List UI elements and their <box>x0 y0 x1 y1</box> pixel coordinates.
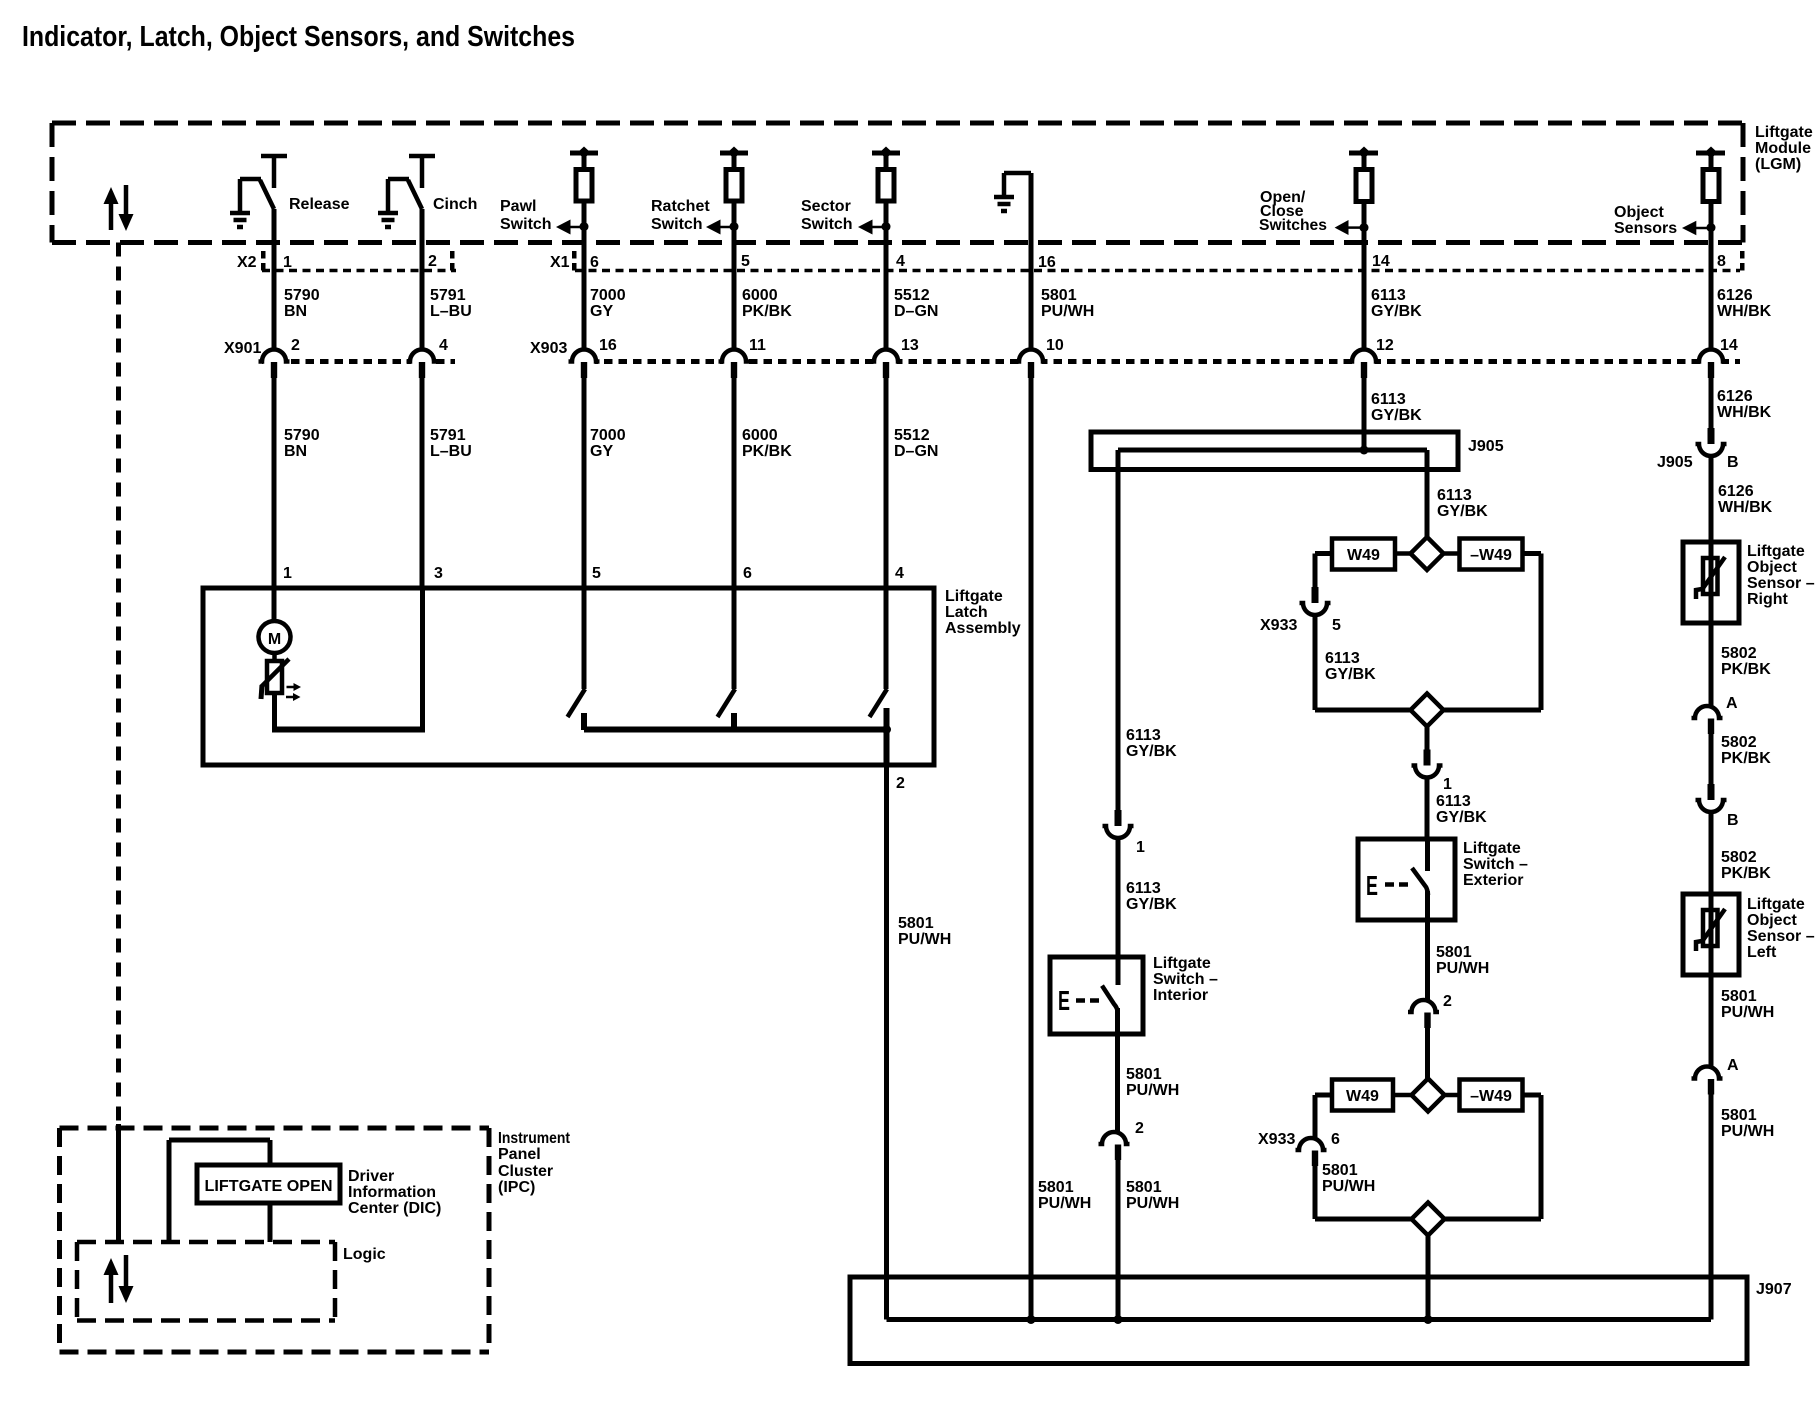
svg-text:PU/WH: PU/WH <box>1721 1123 1774 1140</box>
svg-text:GY/BK: GY/BK <box>1126 896 1177 913</box>
svg-text:E: E <box>1058 985 1070 1016</box>
svg-text:Information: Information <box>348 1184 436 1201</box>
svg-text:10: 10 <box>1046 337 1064 354</box>
svg-text:6113: 6113 <box>1437 487 1472 504</box>
svg-text:X933: X933 <box>1258 1131 1295 1148</box>
svg-text:GY/BK: GY/BK <box>1371 407 1422 424</box>
svg-text:PK/BK: PK/BK <box>1721 661 1771 678</box>
svg-text:6113: 6113 <box>1371 391 1406 408</box>
svg-text:X2: X2 <box>237 254 257 271</box>
svg-text:5801: 5801 <box>1038 1179 1074 1196</box>
svg-text:Driver: Driver <box>348 1168 394 1185</box>
svg-text:PK/BK: PK/BK <box>742 303 792 320</box>
svg-text:PK/BK: PK/BK <box>1721 750 1771 767</box>
svg-text:5802: 5802 <box>1721 849 1757 866</box>
svg-text:5791: 5791 <box>430 427 466 444</box>
svg-text:Panel: Panel <box>498 1146 541 1163</box>
svg-text:Center (DIC): Center (DIC) <box>348 1200 441 1217</box>
svg-text:1: 1 <box>283 565 292 582</box>
svg-text:Switch –: Switch – <box>1153 971 1218 988</box>
svg-text:5801: 5801 <box>1041 287 1077 304</box>
svg-text:Liftgate: Liftgate <box>945 588 1003 605</box>
svg-text:14: 14 <box>1372 253 1390 270</box>
svg-text:4: 4 <box>895 565 904 582</box>
svg-text:Liftgate: Liftgate <box>1747 543 1805 560</box>
svg-text:PU/WH: PU/WH <box>1126 1082 1179 1099</box>
svg-text:2: 2 <box>1135 1120 1144 1137</box>
svg-text:2: 2 <box>428 253 437 270</box>
svg-text:6113: 6113 <box>1126 880 1161 897</box>
svg-text:LIFTGATE OPEN: LIFTGATE OPEN <box>205 1178 333 1195</box>
svg-text:PU/WH: PU/WH <box>1721 1004 1774 1021</box>
svg-text:11: 11 <box>749 337 766 354</box>
svg-text:Right: Right <box>1747 591 1789 608</box>
svg-text:GY/BK: GY/BK <box>1325 666 1376 683</box>
svg-text:GY/BK: GY/BK <box>1437 503 1488 520</box>
svg-text:16: 16 <box>599 337 617 354</box>
svg-text:E: E <box>1366 870 1378 901</box>
svg-text:Liftgate: Liftgate <box>1463 840 1521 857</box>
svg-text:13: 13 <box>901 337 919 354</box>
svg-text:BN: BN <box>284 303 307 320</box>
svg-text:Object: Object <box>1614 204 1664 221</box>
svg-text:Switch: Switch <box>500 216 552 233</box>
svg-text:7000: 7000 <box>590 287 626 304</box>
svg-text:6126: 6126 <box>1717 388 1753 405</box>
svg-text:7000: 7000 <box>590 427 626 444</box>
svg-text:6: 6 <box>743 565 752 582</box>
svg-text:BN: BN <box>284 443 307 460</box>
svg-text:Sensors: Sensors <box>1614 220 1677 237</box>
svg-text:GY: GY <box>590 443 613 460</box>
svg-text:Sector: Sector <box>801 198 851 215</box>
svg-text:PK/BK: PK/BK <box>742 443 792 460</box>
svg-text:6000: 6000 <box>742 427 778 444</box>
svg-text:WH/BK: WH/BK <box>1718 499 1773 516</box>
svg-text:PU/WH: PU/WH <box>898 931 951 948</box>
svg-text:5: 5 <box>741 253 750 270</box>
svg-text:Liftgate: Liftgate <box>1747 896 1805 913</box>
svg-text:1: 1 <box>1443 776 1452 793</box>
svg-text:5512: 5512 <box>894 427 930 444</box>
svg-text:GY/BK: GY/BK <box>1371 303 1422 320</box>
svg-text:Switch –: Switch – <box>1463 856 1528 873</box>
svg-text:WH/BK: WH/BK <box>1717 303 1772 320</box>
svg-text:PU/WH: PU/WH <box>1436 960 1489 977</box>
svg-text:5801: 5801 <box>1721 1107 1757 1124</box>
svg-text:4: 4 <box>896 253 905 270</box>
svg-text:GY/BK: GY/BK <box>1126 743 1177 760</box>
svg-text:4: 4 <box>439 337 448 354</box>
svg-text:Exterior: Exterior <box>1463 872 1523 889</box>
svg-text:PU/WH: PU/WH <box>1322 1178 1375 1195</box>
svg-text:J907: J907 <box>1756 1281 1792 1298</box>
svg-text:Interior: Interior <box>1153 987 1208 1004</box>
svg-text:Switches: Switches <box>1259 217 1327 234</box>
svg-text:Cinch: Cinch <box>433 196 477 213</box>
svg-text:PK/BK: PK/BK <box>1721 865 1771 882</box>
svg-text:(IPC): (IPC) <box>498 1179 535 1196</box>
svg-text:D–GN: D–GN <box>894 303 938 320</box>
svg-text:PU/WH: PU/WH <box>1126 1195 1179 1212</box>
svg-text:Sensor –: Sensor – <box>1747 928 1815 945</box>
svg-text:X903: X903 <box>530 340 567 357</box>
svg-text:L–BU: L–BU <box>430 303 472 320</box>
svg-text:1: 1 <box>1136 839 1145 856</box>
svg-text:Release: Release <box>289 196 350 213</box>
svg-text:Switch: Switch <box>651 216 703 233</box>
svg-text:5801: 5801 <box>1436 944 1472 961</box>
svg-text:6126: 6126 <box>1717 287 1753 304</box>
svg-text:6113: 6113 <box>1436 793 1471 810</box>
svg-text:Cluster: Cluster <box>498 1163 553 1180</box>
svg-text:6113: 6113 <box>1126 727 1161 744</box>
svg-text:6: 6 <box>1331 1131 1340 1148</box>
svg-text:–W49: –W49 <box>1470 1088 1512 1105</box>
svg-text:6126: 6126 <box>1718 483 1754 500</box>
svg-text:B: B <box>1727 454 1739 471</box>
svg-text:Assembly: Assembly <box>945 620 1021 637</box>
svg-text:5801: 5801 <box>898 915 934 932</box>
svg-text:Liftgate: Liftgate <box>1153 955 1211 972</box>
svg-text:Instrument: Instrument <box>498 1130 571 1147</box>
svg-text:6000: 6000 <box>742 287 778 304</box>
svg-text:3: 3 <box>434 565 443 582</box>
svg-text:6: 6 <box>590 254 599 271</box>
svg-text:X1: X1 <box>550 254 570 271</box>
svg-text:Liftgate: Liftgate <box>1755 124 1813 141</box>
svg-text:12: 12 <box>1376 337 1394 354</box>
svg-text:X901: X901 <box>224 340 261 357</box>
svg-text:5790: 5790 <box>284 427 320 444</box>
svg-text:5791: 5791 <box>430 287 466 304</box>
svg-text:X933: X933 <box>1260 617 1297 634</box>
svg-text:2: 2 <box>1443 993 1452 1010</box>
svg-text:5: 5 <box>1332 617 1341 634</box>
svg-text:5801: 5801 <box>1322 1162 1358 1179</box>
svg-text:Ratchet: Ratchet <box>651 198 710 215</box>
svg-text:2: 2 <box>291 337 300 354</box>
svg-text:Switch: Switch <box>801 216 853 233</box>
svg-text:Module: Module <box>1755 140 1811 157</box>
svg-text:8: 8 <box>1717 253 1726 270</box>
svg-text:Indicator, Latch, Object Senso: Indicator, Latch, Object Sensors, and Sw… <box>22 21 575 53</box>
svg-text:5802: 5802 <box>1721 645 1757 662</box>
svg-text:5802: 5802 <box>1721 734 1757 751</box>
svg-text:B: B <box>1727 812 1739 829</box>
svg-text:PU/WH: PU/WH <box>1038 1195 1091 1212</box>
svg-text:(LGM): (LGM) <box>1755 156 1801 173</box>
svg-text:Pawl: Pawl <box>500 198 536 215</box>
svg-text:W49: W49 <box>1346 1088 1379 1105</box>
svg-text:W49: W49 <box>1347 547 1380 564</box>
svg-text:6113: 6113 <box>1371 287 1406 304</box>
svg-text:GY: GY <box>590 303 613 320</box>
svg-text:GY/BK: GY/BK <box>1436 809 1487 826</box>
svg-text:–W49: –W49 <box>1470 547 1512 564</box>
svg-text:Logic: Logic <box>343 1246 386 1263</box>
svg-text:5: 5 <box>592 565 601 582</box>
svg-text:5801: 5801 <box>1721 988 1757 1005</box>
svg-text:5512: 5512 <box>894 287 930 304</box>
svg-text:Object: Object <box>1747 912 1797 929</box>
svg-text:PU/WH: PU/WH <box>1041 303 1094 320</box>
svg-text:Object: Object <box>1747 559 1797 576</box>
svg-text:WH/BK: WH/BK <box>1717 404 1772 421</box>
svg-text:A: A <box>1726 695 1738 712</box>
svg-text:16: 16 <box>1038 254 1056 271</box>
svg-text:14: 14 <box>1720 337 1738 354</box>
svg-text:J905: J905 <box>1468 438 1504 455</box>
svg-text:A: A <box>1727 1057 1739 1074</box>
svg-text:Sensor –: Sensor – <box>1747 575 1815 592</box>
svg-text:6113: 6113 <box>1325 650 1360 667</box>
svg-text:L–BU: L–BU <box>430 443 472 460</box>
svg-text:J905: J905 <box>1657 454 1693 471</box>
svg-text:5801: 5801 <box>1126 1179 1162 1196</box>
svg-text:5801: 5801 <box>1126 1066 1162 1083</box>
svg-text:1: 1 <box>283 254 292 271</box>
svg-text:D–GN: D–GN <box>894 443 938 460</box>
svg-text:M: M <box>268 631 281 648</box>
svg-text:5790: 5790 <box>284 287 320 304</box>
svg-text:Left: Left <box>1747 944 1777 961</box>
svg-text:2: 2 <box>896 775 905 792</box>
svg-text:Latch: Latch <box>945 604 988 621</box>
